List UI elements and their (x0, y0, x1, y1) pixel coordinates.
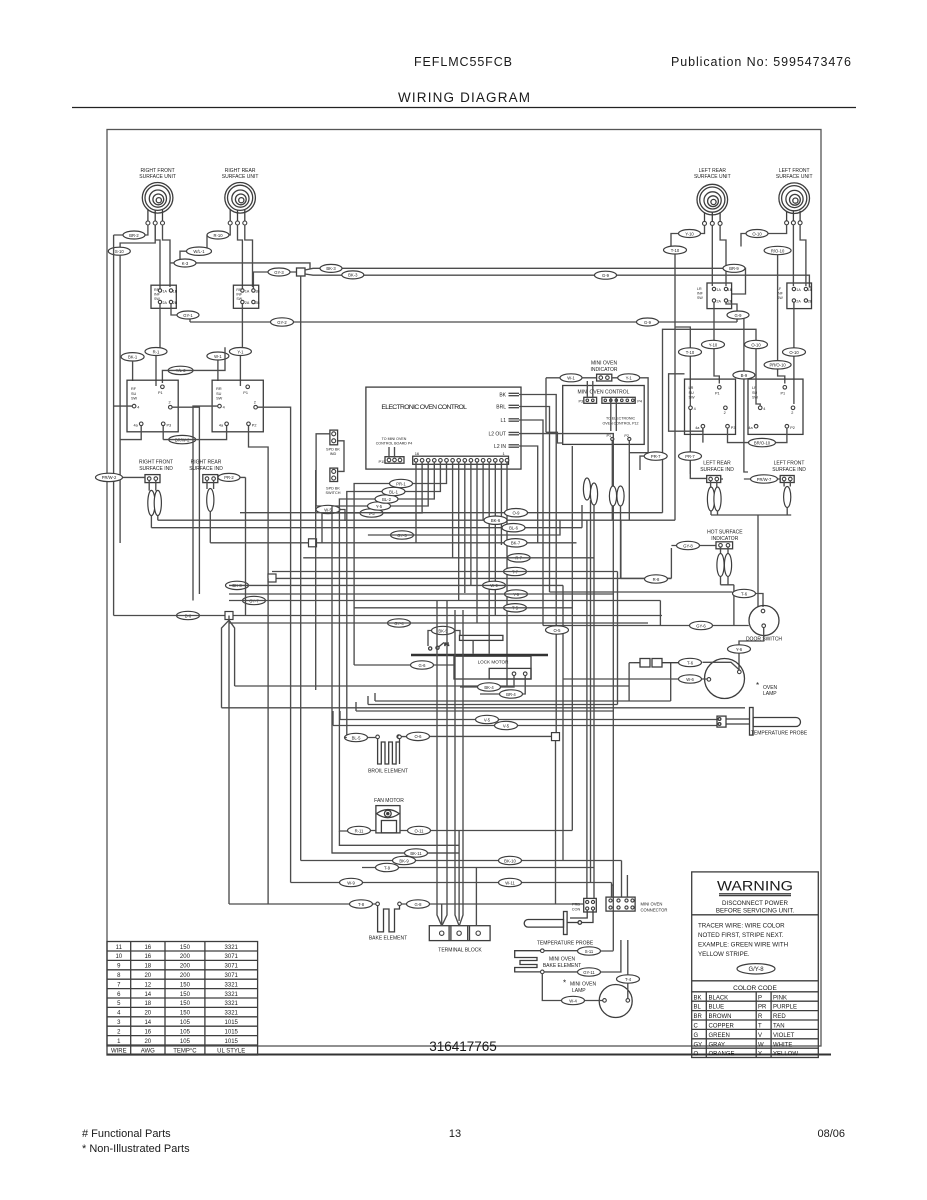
svg-text:SW: SW (131, 397, 138, 401)
wire pair BK-3 upper run (305, 268, 746, 294)
RR ind lamp pill (207, 489, 214, 512)
svg-text:O-6: O-6 (415, 734, 423, 739)
svg-text:1B: 1B (808, 288, 813, 292)
wire eoc pin14 to Y-5 (332, 462, 459, 853)
broil element coil (378, 739, 400, 764)
svg-text:P2: P2 (790, 426, 795, 430)
eoc P15 risers (389, 447, 395, 457)
bus y615.5 (114, 615, 662, 617)
svg-text:HOT SURFACE: HOT SURFACE (707, 530, 743, 536)
svg-text:200: 200 (180, 964, 191, 970)
svg-text:SW: SW (689, 396, 696, 400)
svg-text:RIGHT FRONT: RIGHT FRONT (139, 460, 173, 466)
svg-text:PR/W-2: PR/W-2 (102, 475, 117, 480)
wire RF terminal 1 drop (114, 225, 148, 235)
wire eoc pin6 drop (476, 462, 478, 623)
wire label S-10 (108, 247, 130, 255)
svg-text:BK-4: BK-4 (484, 685, 494, 690)
svg-text:2: 2 (724, 411, 726, 415)
wire label BK-1 (121, 353, 144, 361)
wire eoc pin12 to BL-1 (347, 462, 441, 737)
wire vertical x621 (620, 520, 622, 578)
right rear surface unit label (222, 168, 259, 180)
wire label Y-9 col (505, 590, 528, 598)
wire label G-9 (595, 271, 617, 279)
wire vertical x563 (562, 585, 564, 860)
svg-text:4: 4 (694, 407, 696, 411)
svg-text:1A: 1A (717, 288, 722, 292)
svg-text:16: 16 (144, 954, 151, 960)
hot surface pill 2 (724, 554, 731, 577)
wire eoc pin16 drop (415, 462, 417, 543)
svg-text:R/O-10: R/O-10 (771, 248, 785, 253)
wire label T-9 (376, 863, 399, 871)
svg-text:2B: 2B (255, 301, 260, 305)
RF infinite switch box (151, 285, 178, 308)
wire LF terminal2 down (792, 225, 794, 286)
svg-text:O-10: O-10 (751, 342, 761, 347)
spd bk switch (326, 468, 341, 495)
vertical pill wire A (583, 478, 590, 500)
wire Y-1 drop (239, 356, 241, 386)
svg-text:1B: 1B (173, 289, 178, 293)
wire eoc pin3 drop (494, 462, 496, 615)
wire hot surface drops (721, 547, 734, 625)
svg-text:2B: 2B (173, 301, 178, 305)
svg-text:P3: P3 (731, 426, 736, 430)
svg-text:Y-6: Y-6 (736, 647, 743, 652)
wire moc p1 drop (611, 441, 613, 520)
svg-text:PURPLE: PURPLE (773, 1005, 797, 1011)
wire vert x290 (290, 470, 292, 883)
svg-text:W/L-1: W/L-1 (193, 249, 205, 254)
wire label PR/O-10 (764, 361, 791, 369)
svg-text:T-4: T-4 (625, 977, 632, 982)
svg-text:SU: SU (131, 392, 137, 396)
wire label BR/W-2 (169, 435, 196, 443)
wire mini oven left drop (545, 378, 547, 433)
wire label BL-6 col (502, 524, 525, 532)
wire LR INF 2B drop to G-9 (726, 302, 737, 322)
wire label GY-1 (177, 311, 199, 319)
svg-text:BK: BK (694, 995, 702, 1001)
wire label W-6 (679, 675, 702, 683)
wire eoc pin10 drop (452, 462, 454, 558)
wire BR/O-10 to LF 4a (776, 428, 787, 443)
svg-text:L2 OUT: L2 OUT (488, 432, 506, 438)
wire label GY-8 (677, 541, 700, 549)
mini oven connector (606, 897, 667, 912)
wire eoc pin7 drop (470, 462, 472, 585)
wire label G-9 under LR sw (727, 311, 749, 319)
svg-text:BK-6: BK-6 (491, 518, 501, 523)
svg-text:WHITE: WHITE (773, 1042, 792, 1048)
bus y512.7 (240, 512, 663, 514)
svg-text:*: * (756, 681, 759, 690)
wire label O-10 second tier (783, 348, 806, 356)
wire LR su sw drops (703, 428, 750, 443)
wire RR to W/L-1 (207, 235, 211, 251)
bus y571.5 (272, 571, 618, 573)
svg-text:W-11: W-11 (505, 880, 515, 885)
svg-text:P1: P1 (781, 392, 786, 396)
wire BK-4 run (460, 676, 514, 688)
tracer example oval G/Y-8 (737, 964, 775, 974)
svg-text:GY-11: GY-11 (583, 970, 595, 975)
svg-text:TEMPERATURE PROBE: TEMPERATURE PROBE (537, 941, 594, 947)
left front surface unit label (776, 168, 813, 180)
bus y711 (356, 702, 614, 711)
wire door switch to lamp (739, 628, 764, 671)
svg-text:T-10: T-10 (671, 248, 680, 253)
wire bk-11 run (332, 852, 459, 854)
svg-text:BR/O-10: BR/O-10 (754, 440, 771, 445)
wire gy-8 left drop (676, 545, 678, 547)
svg-text:1015: 1015 (225, 1039, 239, 1045)
wire RF ind drops (149, 481, 158, 528)
wire LF terminal1 to O-10 (768, 225, 787, 234)
svg-text:20: 20 (144, 973, 151, 979)
wire label GY-2 (271, 318, 294, 326)
wire LR terminal2 down (711, 225, 713, 286)
mini oven indicator label (590, 361, 617, 373)
svg-text:16: 16 (144, 945, 151, 951)
wire mini lamp left (542, 974, 602, 1001)
svg-text:16: 16 (144, 1029, 151, 1035)
svg-text:Y-10: Y-10 (685, 231, 694, 236)
wire label V-5 (360, 509, 383, 517)
LR ind pill 2 (714, 487, 721, 511)
wire label R/O-10 (764, 246, 791, 254)
wire fan leads (371, 831, 573, 854)
wire label V-5 pair b (495, 721, 518, 729)
svg-text:SURFACE IND: SURFACE IND (700, 467, 734, 473)
svg-text:GY-6: GY-6 (696, 623, 706, 628)
wire eoc pin1 drop (506, 462, 508, 686)
svg-text:# Functional Parts: # Functional Parts (82, 1128, 171, 1140)
wire gauge table rows (111, 945, 245, 1055)
wire label B-6 left (177, 611, 200, 619)
svg-text:1B: 1B (728, 288, 733, 292)
svg-text:P1: P1 (715, 392, 720, 396)
wire label GY-4 left (388, 619, 411, 627)
svg-text:LEFT REAR: LEFT REAR (703, 461, 731, 467)
svg-text:V-5: V-5 (503, 723, 510, 728)
bus y600.5 (229, 601, 660, 626)
wire W-6 run (563, 678, 707, 680)
wire W-5 to bus (340, 510, 345, 521)
svg-text:V: V (758, 1033, 762, 1039)
svg-text:C: C (694, 1024, 699, 1030)
svg-text:*: * (563, 979, 566, 988)
left rear surface ind box (707, 476, 721, 483)
wire eoc pin5 drop (482, 462, 484, 520)
wire indicator leads (546, 378, 648, 453)
broil element terminals (376, 735, 402, 739)
wire BR-4 run (480, 676, 525, 695)
svg-text:P3: P3 (167, 424, 172, 428)
svg-text:2: 2 (254, 401, 256, 405)
color code table grid (692, 992, 819, 1058)
svg-text:BL-2: BL-2 (382, 497, 392, 502)
svg-text:200: 200 (180, 973, 191, 979)
svg-text:W: W (758, 1042, 764, 1048)
svg-text:G/Y-8: G/Y-8 (748, 967, 764, 973)
svg-text:1A: 1A (796, 288, 801, 292)
lock motor legs (473, 640, 489, 653)
svg-text:R: R (758, 1014, 763, 1020)
RR infinite switch box (233, 285, 260, 308)
wire label R-11 (348, 826, 371, 834)
temperature probe 2 assembly (524, 910, 593, 934)
svg-text:SURFACE UNIT: SURFACE UNIT (776, 174, 813, 180)
mini oven bake element label (543, 957, 581, 970)
wire label BK-9 (393, 856, 416, 864)
svg-text:12: 12 (144, 982, 151, 988)
svg-text:S-11: S-11 (585, 949, 594, 954)
wire label GY-7 left (243, 596, 266, 604)
svg-text:BEFORE SERVICING UNIT.: BEFORE SERVICING UNIT. (716, 907, 795, 914)
wire RR INF 2A down (241, 304, 243, 347)
wire eoc pin4 lock motor leg (488, 462, 490, 640)
bus y867.5 (362, 867, 594, 869)
wire label Y-1 right of indicator (618, 374, 640, 382)
svg-text:LR: LR (697, 287, 702, 291)
svg-text:4: 4 (763, 407, 765, 411)
wire label BR-9 (723, 264, 745, 272)
wire label T-4 (617, 975, 640, 983)
svg-text:INF: INF (697, 292, 704, 296)
wire label O-11 (408, 826, 431, 834)
svg-text:SPD BK: SPD BK (326, 448, 340, 452)
mini oven bake element terminals (541, 949, 545, 974)
left rear surface unit terminals (703, 221, 723, 225)
svg-text:SURFACE IND: SURFACE IND (772, 467, 806, 473)
wire moc p4 risers (587, 381, 616, 431)
svg-text:GY-1: GY-1 (183, 313, 193, 318)
svg-text:AWG: AWG (141, 1048, 155, 1054)
svg-text:P1: P1 (243, 391, 248, 395)
wire label R-10 (207, 231, 229, 239)
tracer wire paragraph (698, 923, 788, 959)
svg-text:O-10: O-10 (789, 350, 799, 355)
wire eoc pin11 to PR-1 (354, 462, 446, 665)
svg-text:R-11: R-11 (355, 828, 364, 833)
wire label BL-1 (382, 487, 405, 495)
left rear surface unit coil (697, 184, 728, 221)
wire label W/L-1 (187, 247, 212, 255)
svg-text:RR: RR (216, 387, 222, 391)
svg-text:L2 IN: L2 IN (494, 444, 506, 450)
svg-text:LR: LR (689, 386, 694, 390)
wire fan loop left (339, 831, 459, 845)
svg-text:LEFT FRONT: LEFT FRONT (774, 461, 805, 467)
wire node drop (555, 741, 557, 904)
wire Y-10 to T-10 drop (671, 234, 679, 247)
wire eoc pin2 drop (500, 462, 502, 545)
svg-text:MINI OVEN: MINI OVEN (570, 982, 597, 988)
wire vert x303 (300, 276, 302, 861)
wire O-6 circle terminal (397, 735, 401, 739)
svg-text:TEMP°C: TEMP°C (173, 1048, 197, 1054)
svg-text:SPD BK: SPD BK (326, 487, 340, 491)
svg-text:4: 4 (137, 406, 139, 410)
door switch terminals (761, 609, 765, 627)
wire eoc pin8 drop (464, 462, 466, 593)
svg-text:G-9: G-9 (644, 320, 652, 325)
svg-text:MINI OVEN: MINI OVEN (549, 957, 576, 963)
svg-text:R-1: R-1 (153, 349, 160, 354)
junction node square 1 (309, 539, 317, 547)
svg-text:PINK: PINK (773, 995, 787, 1001)
wire eoc L1 out (519, 420, 543, 626)
wire left vertical trunk x113 (113, 235, 115, 616)
svg-text:RIGHT REAR: RIGHT REAR (191, 460, 222, 466)
svg-text:P1: P1 (158, 391, 163, 395)
svg-text:PR/O-10: PR/O-10 (769, 363, 786, 368)
bus y707.8 (222, 620, 746, 708)
wire label PR-1 (390, 479, 413, 487)
wire RF P3 drop (162, 426, 164, 440)
mini oven indicator box (597, 374, 612, 381)
svg-text:INF: INF (236, 293, 243, 297)
wire label Y-1 (229, 348, 251, 356)
svg-text:BLACK: BLACK (709, 995, 729, 1001)
svg-text:P4: P4 (637, 399, 642, 403)
lock motor top rect (460, 635, 503, 640)
svg-text:BK-7: BK-7 (511, 541, 521, 546)
wire label B-9 (733, 371, 755, 379)
wire B-9 drop (744, 319, 748, 473)
wire label BR-4 (500, 690, 523, 698)
svg-text:Y-10: Y-10 (709, 342, 718, 347)
svg-text:BR-2: BR-2 (129, 233, 139, 238)
wire label GY-6 (690, 621, 713, 629)
svg-text:YELLOW STRIPE.: YELLOW STRIPE. (698, 951, 750, 958)
svg-text:TERMINAL BLOCK: TERMINAL BLOCK (438, 948, 482, 954)
svg-text:13: 13 (449, 1128, 461, 1140)
svg-text:BK-10: BK-10 (504, 858, 516, 863)
svg-text:SU: SU (752, 391, 758, 395)
wire RF 2 to right (172, 407, 199, 594)
wire pair BK-3 lower run (305, 274, 812, 287)
wire label BK-6 col (484, 516, 507, 524)
spd bk ind (326, 430, 340, 456)
wire RF terminal3 to INF SW 1B (163, 225, 171, 287)
wire BK-5 stub (428, 631, 460, 647)
svg-text:INDICATOR: INDICATOR (590, 367, 617, 373)
svg-text:14: 14 (144, 992, 151, 998)
LF ind pill (784, 487, 791, 508)
wire label BK-7 col (504, 539, 527, 547)
oven lamp terminals (707, 670, 741, 681)
wire label T-6 lamp (679, 658, 702, 666)
svg-text:YELLOW: YELLOW (773, 1052, 798, 1058)
svg-text:10: 10 (115, 954, 122, 960)
right front surface unit coil (142, 183, 173, 222)
LF surface unit switch box (748, 379, 803, 434)
RF ind lamp pill 2 (154, 490, 161, 515)
svg-text:ELECTRONIC OVEN CONTROL: ELECTRONIC OVEN CONTROL (381, 404, 467, 411)
wire label T-7 col (504, 567, 527, 575)
wire label BL-5 (345, 733, 368, 741)
prb con connector (572, 898, 597, 912)
wire label BR/O-10 (749, 438, 776, 446)
wire LF terminal3 down (800, 225, 806, 286)
svg-text:BL-6: BL-6 (509, 526, 519, 531)
wire RR terminal2 to 1A (238, 225, 243, 289)
wire gy-8 lead (671, 545, 716, 547)
svg-text:SURFACE IND: SURFACE IND (139, 466, 173, 472)
junction node square 2 (268, 574, 276, 582)
wire mini lamp right riser (627, 940, 629, 999)
svg-text:BR-4: BR-4 (506, 692, 516, 697)
svg-text:PRB: PRB (572, 903, 580, 907)
wire eoc L2 IN run (519, 446, 538, 543)
svg-text:150: 150 (180, 1011, 191, 1017)
bus y860.5 (301, 861, 622, 898)
wire label BR-2 (123, 231, 145, 239)
wire K-3 run (170, 263, 310, 269)
svg-text:3321: 3321 (225, 992, 239, 998)
svg-text:18: 18 (144, 1001, 151, 1007)
wire moc p2 drop (628, 441, 630, 520)
svg-text:P: P (758, 995, 762, 1001)
svg-text:SW: SW (216, 397, 223, 401)
svg-text:CONTROL BOARD P4: CONTROL BOARD P4 (376, 442, 413, 446)
svg-text:18: 18 (144, 964, 151, 970)
hot surface pill 1 (717, 554, 724, 577)
svg-text:T-8: T-8 (358, 902, 365, 907)
wire label V-5 pair a (476, 715, 499, 723)
svg-text:MINI OVEN CONTROL: MINI OVEN CONTROL (578, 390, 630, 396)
svg-text:GY-2: GY-2 (277, 320, 287, 325)
svg-text:EXAMPLE: GREEN WIRE WIT: EXAMPLE: GREEN WIRE WITH (698, 942, 788, 949)
wire label W-4 (562, 996, 585, 1004)
wire R-8 run (621, 577, 672, 579)
svg-text:200: 200 (180, 954, 191, 960)
right rear surface ind box (203, 475, 218, 483)
wire RF4 to left trunk (114, 405, 133, 407)
svg-text:RF: RF (131, 387, 137, 391)
wire Y/L-2 run to P1 (162, 347, 225, 383)
svg-text:1A: 1A (163, 289, 168, 293)
svg-text:1015: 1015 (225, 1020, 239, 1026)
svg-text:2B: 2B (728, 299, 733, 303)
svg-text:ORANGE: ORANGE (709, 1052, 735, 1058)
svg-text:OVEN CONTROL P12: OVEN CONTROL P12 (602, 422, 638, 426)
wire label PR/W-2 (96, 473, 123, 481)
svg-text:2: 2 (169, 401, 171, 405)
LR ind pill 1 (707, 487, 714, 511)
wire mini oven connector risers (612, 875, 628, 897)
svg-text:LAMP: LAMP (572, 988, 586, 994)
svg-text:1A: 1A (245, 289, 250, 293)
svg-text:BL: BL (694, 1005, 702, 1011)
wire GY-5 run (368, 520, 560, 535)
wire label O-6 (407, 732, 430, 740)
diagram outer border (107, 130, 821, 1047)
svg-text:BK-3: BK-3 (348, 273, 358, 278)
warning box (692, 872, 819, 1058)
svg-text:T-10: T-10 (686, 350, 695, 355)
svg-text:LAMP: LAMP (763, 691, 777, 697)
svg-text:Publication No: 5995473476: Publication No: 5995473476 (671, 55, 851, 69)
svg-text:11: 11 (116, 945, 123, 951)
svg-text:IND: IND (330, 452, 337, 456)
lock motor body box (454, 656, 531, 679)
wire R-1 drop (155, 356, 157, 386)
